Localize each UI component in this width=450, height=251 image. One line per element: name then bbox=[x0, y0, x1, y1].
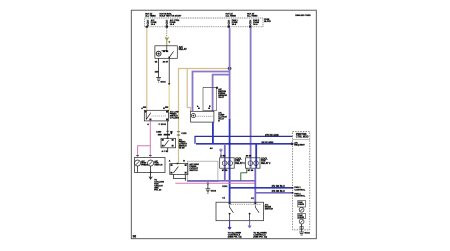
wire purple fuse F4 vertical down to fan relay 2 bbox=[250, 28, 252, 168]
wire blue main vertical lower part of F3 line bbox=[229, 119, 231, 202]
fuse block bottom connector pins bbox=[146, 26, 252, 28]
mech link dashed bbox=[231, 203, 262, 205]
svg-text:59 DK GRN: 59 DK GRN bbox=[262, 142, 274, 144]
high pressure switch box B bbox=[170, 164, 188, 175]
svg-text:98: 98 bbox=[133, 235, 137, 239]
svg-text:A C B: A C B bbox=[162, 150, 168, 153]
ground G101 bbox=[156, 78, 161, 83]
wire tan branch down to compressor connector bbox=[187, 69, 190, 112]
svg-text:30 87: 30 87 bbox=[163, 62, 169, 64]
wire dk blu upper to PCM bbox=[195, 136, 293, 143]
relay switch contact bbox=[161, 46, 173, 58]
ground G2 symbol bbox=[206, 183, 211, 193]
wire blue below mode switch bbox=[228, 221, 231, 230]
svg-text:G101: G101 bbox=[160, 82, 166, 84]
svg-text:472 DK BLU: 472 DK BLU bbox=[272, 185, 285, 188]
junction dot on pink line bbox=[207, 182, 209, 184]
connector on tan wire bbox=[177, 132, 180, 135]
wire yellow from splice to low pressure switch bbox=[168, 85, 170, 109]
wire dashed from fuse F2 down to relay arrow bbox=[166, 28, 168, 41]
junction dot tan to purple bbox=[228, 67, 232, 71]
fan relay 2 coil circles bbox=[248, 161, 253, 166]
connector ticks on pink wires bbox=[136, 155, 152, 157]
svg-text:S161: S161 bbox=[222, 186, 228, 188]
fan relay 1 coil circles bbox=[222, 161, 227, 166]
pressure switch circle right bbox=[148, 160, 154, 166]
fuse F1 symbol bbox=[147, 20, 149, 25]
wire tan elbow from relay area to purple junction bbox=[179, 69, 230, 164]
lps dashed line bbox=[152, 115, 167, 117]
right switch inside bbox=[250, 205, 260, 221]
svg-text:C S103: C S103 bbox=[159, 124, 167, 126]
svg-text:473 DK BLU: 473 DK BLU bbox=[272, 190, 285, 193]
mode switch inner pin marks bbox=[229, 213, 231, 214]
svg-text:1998 AIR COND: 1998 AIR COND bbox=[295, 14, 311, 17]
svg-text:275 DK GRN: 275 DK GRN bbox=[265, 135, 279, 137]
A/C compressor box bbox=[191, 111, 214, 122]
wire purple branch right to PCM pin2 bbox=[255, 192, 292, 194]
A/C request switch box bbox=[161, 138, 176, 148]
PCM internal circle 2 bbox=[299, 219, 304, 224]
junction dot blue cross bbox=[228, 143, 230, 145]
fuse F4 symbol bbox=[249, 20, 251, 25]
compressor clutch coil circle bbox=[191, 114, 195, 118]
arrow into relay bbox=[165, 37, 169, 46]
svg-text:G104: G104 bbox=[304, 232, 310, 235]
wire purple below mode switch bbox=[248, 221, 251, 228]
PCM internal circle 1 bbox=[299, 207, 304, 212]
arrow down off page bbox=[149, 175, 152, 180]
svg-text:86 85: 86 85 bbox=[163, 51, 169, 53]
fuse F2 symbol bbox=[166, 20, 168, 25]
svg-text:TO BLOWERCONTROLS(SEE FIG. 12): TO BLOWERCONTROLS(SEE FIG. 12) bbox=[228, 232, 242, 238]
underhood fuse block dashed box bbox=[145, 18, 263, 27]
compressor dashed line bbox=[197, 115, 213, 117]
svg-text:87 85: 87 85 bbox=[248, 170, 254, 172]
fan relay 2 box bbox=[246, 158, 261, 168]
wire from lps down to ac switch (dark) bbox=[167, 121, 169, 138]
sensor box top dashed line bbox=[203, 87, 217, 89]
wire pink from lps down elbows to pressure switches bbox=[138, 121, 151, 157]
wire purple vertical right (to PCM and mode switch) bbox=[254, 168, 256, 202]
svg-text:C280: C280 bbox=[156, 132, 162, 134]
wire blue branch right to PCM pin1 bbox=[230, 187, 293, 189]
wire relay switch down (black upper part) bbox=[168, 58, 170, 83]
left switch inside bbox=[230, 205, 234, 221]
connector ticks on wire bbox=[166, 131, 169, 135]
splice dot S bbox=[168, 83, 170, 85]
pin marks at PCM entries bbox=[292, 143, 294, 145]
PCM internal driver box 1 bbox=[298, 200, 306, 207]
PCM ground symbol bbox=[299, 232, 304, 235]
PCM internal driver box 2 bbox=[298, 213, 306, 218]
junction dot on sensor top bbox=[216, 87, 218, 89]
pressure switch circle left bbox=[135, 160, 141, 166]
wire relay coil to ground bbox=[158, 58, 160, 77]
PCM bottom pin bbox=[301, 224, 303, 232]
page frame border bbox=[131, 10, 316, 239]
low pressure switch box bbox=[144, 110, 168, 121]
gray container box C bbox=[187, 161, 218, 181]
svg-text:87 85: 87 85 bbox=[222, 170, 228, 172]
svg-text:C125: C125 bbox=[181, 133, 187, 135]
wire green hook from fan relay 2 pin 85 to bus bbox=[241, 168, 247, 181]
wire purple fuse F3 main vertical upper (PPL) bbox=[229, 28, 231, 120]
wire black from switch B pin A to ground tap bbox=[174, 175, 187, 181]
fuse F3 symbol bbox=[228, 20, 230, 25]
wire purple branch P2 bbox=[213, 75, 230, 112]
wire from switches joined down bbox=[138, 166, 151, 175]
PCM dashed box bbox=[293, 132, 310, 230]
svg-text:30 86: 30 86 bbox=[246, 155, 252, 157]
wire pink long horizontal bbox=[175, 182, 255, 184]
A/C compressor relay box bbox=[155, 46, 177, 59]
request switch diagonal bbox=[164, 140, 169, 146]
wire purple branch left to P1 bbox=[193, 72, 230, 112]
pressure switches box (dual) bbox=[135, 158, 166, 173]
pressure sensor box bbox=[203, 88, 217, 111]
svg-text:G103: G103 bbox=[211, 191, 217, 193]
wire blue branch down at 224.8 through fan relay1 bbox=[224, 144, 226, 181]
wire tan from fuse F1 down to low pressure switch bbox=[146, 28, 148, 111]
mode switch box (bottom) bbox=[216, 202, 264, 221]
svg-text:TO BLOWERCONTROLS(SEE FIG. 12): TO BLOWERCONTROLS(SEE FIG. 12) bbox=[253, 232, 267, 238]
arrow into relay1 left pin bbox=[219, 148, 222, 158]
wire blue from compressor down elbow right bbox=[196, 143, 293, 145]
switch B diagonal bbox=[173, 167, 178, 174]
lps switch diagonal bbox=[146, 113, 151, 120]
fan relay 1 box bbox=[220, 158, 235, 168]
relay coil bbox=[156, 51, 161, 56]
wire purple horizontal lower bus bbox=[187, 180, 255, 182]
